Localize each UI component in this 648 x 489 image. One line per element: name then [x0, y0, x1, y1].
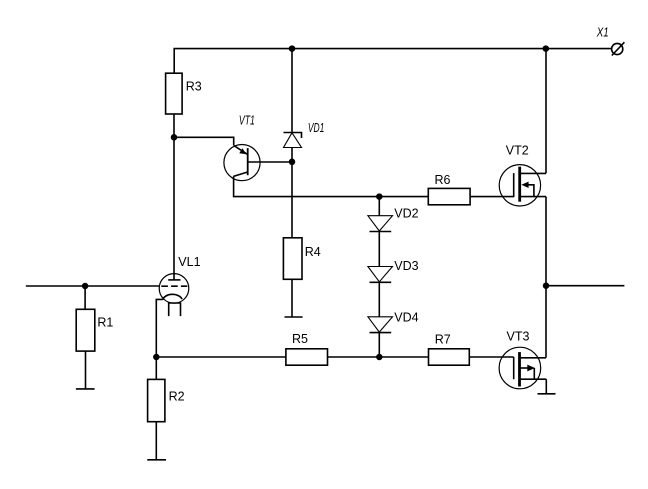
wire R2 to ground [155, 422, 157, 460]
svg-text:R1: R1 [97, 316, 113, 330]
wire VT1 collector to node A [234, 176, 380, 196]
wire R6 to VT2 gate [470, 196, 514, 198]
wire R5 to node B [328, 356, 429, 358]
wire VT1 base lead [248, 161, 292, 163]
svg-text:VT3: VT3 [507, 330, 530, 344]
wire VD4 to bottom rail [378, 333, 380, 357]
ground under R4 [285, 316, 303, 318]
resistor R1 [76, 309, 95, 351]
node R2/R5/cathode junction [153, 354, 160, 361]
resistor R3 [166, 73, 183, 114]
wire VT2 drain up [545, 49, 547, 174]
svg-text:VT2: VT2 [506, 143, 529, 157]
wire R3 bottom to VL1 anode [173, 114, 175, 280]
svg-text:R3: R3 [186, 79, 202, 93]
resistor R7 [429, 349, 470, 365]
node top rail / VD1 branch [289, 45, 296, 52]
diode VD4 [368, 317, 393, 333]
wire R1 top [84, 286, 86, 309]
ground under VT3 [538, 393, 556, 395]
diode VD2 [368, 216, 393, 232]
wire VL1 cathode lead [156, 299, 163, 357]
wire VT1 emitter lead [174, 137, 234, 145]
wire R1 to ground [85, 351, 87, 389]
wire VT2 source to VT3 drain [545, 197, 547, 358]
node R1 junction [82, 283, 89, 290]
wire VD1 bottom to R4 [291, 148, 293, 238]
wire R7 to VT3 gate [469, 356, 513, 358]
wire node A to R6 [379, 196, 428, 198]
node VT1 base / VD1 junction [289, 159, 296, 166]
svg-text:VT1: VT1 [239, 114, 255, 128]
svg-text:VD2: VD2 [394, 207, 418, 221]
node mid rail [543, 282, 550, 289]
node top rail / VT2 drain [543, 45, 550, 52]
resistor R5 [286, 349, 328, 365]
resistor R4 [283, 238, 302, 279]
wire VD1 top [291, 49, 293, 133]
node R3/VT1/VL1 junction [171, 134, 178, 141]
svg-text:VD4: VD4 [394, 311, 418, 325]
transistor VT3 (MOSFET) [499, 347, 546, 389]
wire top rail [174, 49, 611, 74]
ground under R2 [147, 459, 166, 461]
tube VL1 [159, 274, 189, 317]
wire VD3 to VD4 [378, 282, 380, 317]
terminal X1 [612, 42, 625, 55]
wire VD2 to VD3 [378, 232, 380, 267]
wire VT3 source to ground [545, 379, 547, 394]
svg-text:VD1: VD1 [308, 121, 325, 135]
transistor VT2 (MOSFET) [499, 165, 546, 206]
wire node A to VD2 [378, 197, 380, 216]
wire right output rail [546, 285, 624, 287]
svg-text:X1: X1 [596, 26, 609, 40]
wire R4 to ground [291, 279, 293, 317]
wire left input rail [26, 285, 160, 287]
diode VD1 (zener) [284, 133, 302, 148]
svg-text:R5: R5 [292, 332, 308, 346]
ground under R1 [76, 388, 95, 390]
wire R2 top [155, 357, 157, 379]
svg-text:VL1: VL1 [178, 255, 200, 269]
diode VD3 [368, 267, 393, 283]
svg-text:R7: R7 [435, 333, 451, 347]
wire bottom rail left [156, 356, 286, 358]
svg-text:VD3: VD3 [394, 259, 418, 273]
svg-text:R6: R6 [435, 173, 451, 187]
transistor Q VT1 [224, 145, 260, 181]
node A (VD2/R6 junction) [376, 193, 383, 200]
resistor R2 [148, 379, 165, 421]
node B (VD4/R7 junction) [376, 354, 383, 361]
svg-text:R2: R2 [169, 389, 185, 403]
resistor R6 [428, 188, 470, 204]
svg-text:R4: R4 [305, 245, 321, 259]
